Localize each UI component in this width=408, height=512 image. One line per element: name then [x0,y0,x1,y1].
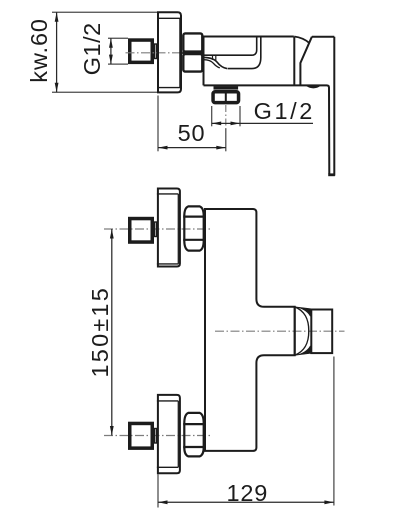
outlet nut mid line [225,90,227,104]
top plate inner bottom line [157,263,178,265]
top hex nut outline [184,206,203,250]
arrow left outlet [212,122,222,126]
svg-text:50: 50 [178,120,206,146]
arrow right outlet [231,122,241,126]
handle cap rect [311,310,332,354]
extension line 50 right [225,129,227,152]
arrow up kw.60 [55,12,59,22]
extension line bottom of wall plate [52,91,157,93]
top wall plate [158,189,180,267]
svg-text:G1/2: G1/2 [254,98,315,124]
cone wedge bottom [295,346,311,355]
bottom nut division lower [183,446,205,448]
body bottom and lever inner edge [204,85,330,174]
dimension 150 line [111,229,113,436]
notch under handle [306,86,321,89]
hex nut lower half [183,54,202,72]
main body outline [205,209,295,451]
dimension outlet G1/2 with leader [212,122,313,124]
internal channel bottom [228,37,261,69]
bottom inlet centerline [104,435,213,437]
cap slant [300,37,312,86]
top collar [155,222,157,237]
internal S-curve B [204,60,220,68]
extension line G1/2 top [108,37,128,39]
lever bottom cap [328,173,335,176]
extension line outlet right [239,106,241,126]
top inlet centerline [104,228,213,230]
body right edge [293,37,295,86]
dimension 50 [158,147,226,149]
plate inner vertical line [179,18,181,87]
arrow up G1/2 [109,38,113,48]
wall plate [158,12,181,92]
svg-text:129: 129 [226,480,268,506]
dome curve [294,37,309,43]
hex nut mid line [182,51,203,54]
bottom collar [155,429,157,444]
centerline horizontal [126,52,183,54]
top connector thick rect [130,219,153,243]
dimension 129 [158,501,334,503]
cone wedge top [295,307,311,316]
arrow down kw.60 [55,83,59,93]
extension line outlet left [211,106,213,126]
inlet connector G1/2 thick rect [130,40,153,62]
cone flange edge [294,307,296,356]
bottom plate inner top line [157,400,178,402]
extension line top of wall plate [52,11,157,13]
internal S-curve A [204,57,227,68]
outlet hex nut [213,92,239,103]
svg-text:G1/2: G1/2 [79,22,105,75]
hex nut upper half [183,33,202,51]
bottom connector thick rect [130,423,153,448]
bottom plate inner vertical line [177,401,179,467]
arrow right 129 [324,500,334,504]
dimension G1/2 line [110,38,112,64]
extension line 129 left [157,474,159,507]
svg-text:kw.60: kw.60 [26,18,52,83]
top nut division upper [183,216,205,218]
bottom wall plate [158,395,180,473]
arrow down 150 [110,426,114,436]
handle top [312,36,334,38]
bottom plate inner bottom line [157,466,178,468]
outlet centerline vertical [225,105,227,129]
top nut division lower [183,239,205,241]
bottom nut division upper [183,423,205,425]
svg-text:150±15: 150±15 [87,286,113,377]
neck centerline [215,330,345,332]
top plate inner vertical line [177,194,179,264]
internal tick 1 [212,55,214,60]
outlet collar band [214,87,237,89]
extension line G1/2 bottom [108,63,128,65]
arrow up 150 [110,229,114,239]
internal tick 2 [215,55,217,61]
arrow down G1/2 [109,55,113,65]
handle outer edge [333,37,335,176]
plate inner top line [157,17,182,19]
dimension kw.60 line [56,12,58,92]
arrow left 50 [158,146,168,150]
plate inner bottom line [157,87,182,89]
top plate inner top line [157,193,178,195]
internal channel outline [204,37,257,56]
arrow left 129 [158,500,168,504]
extension line 129 right [333,357,335,506]
arrow right 50 [216,146,226,150]
cone base arc [295,307,309,356]
body outline [204,37,294,86]
collar between connector and plate [155,44,157,59]
extension line 50 left [157,96,159,152]
bottom hex nut outline [184,413,203,457]
